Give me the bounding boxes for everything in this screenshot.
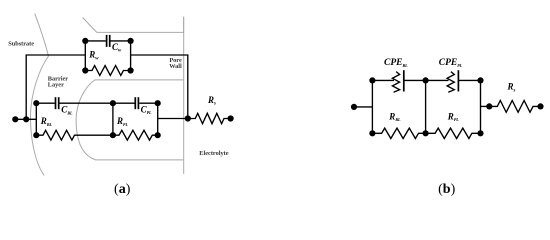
svg-text:Electrolyte: Electrolyte [199,150,228,157]
svg-text:Substrate: Substrate [8,41,34,48]
svg-text:Layer: Layer [48,82,64,89]
svg-text:(b): (b) [438,182,455,197]
svg-text:(a): (a) [114,182,131,197]
svg-text:Wall: Wall [169,63,182,70]
